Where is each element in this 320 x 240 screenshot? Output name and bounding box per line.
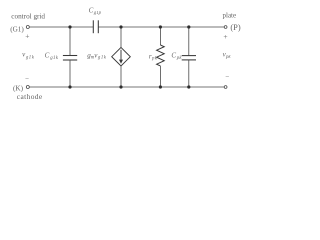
svg-text:g1k: g1k (50, 56, 58, 61)
resistor rpk (157, 27, 165, 87)
wire bottom rail (K to bottom-right terminal) (29, 86, 224, 88)
svg-text:pk: pk (176, 56, 183, 61)
svg-text:g1k: g1k (26, 56, 35, 61)
junction dot top at Cg1k (68, 25, 71, 28)
capacitor Cg1k (left shunt branch) (63, 27, 77, 87)
node P terminal (open circle) (224, 26, 227, 29)
wire top rail right segment (Cg1p to P) (98, 26, 224, 28)
capacitor Cpk (182, 27, 196, 87)
label: Cpk (171, 51, 182, 60)
junction dot bottom at rpk (159, 85, 162, 88)
svg-text:+: + (25, 32, 29, 41)
label: Cg1p (89, 7, 102, 17)
junction dot top at current source (119, 25, 122, 28)
node G1 terminal (open circle) (26, 26, 29, 29)
svg-text:cathode: cathode (17, 92, 43, 101)
svg-text:pk: pk (225, 55, 231, 60)
node bottom-right terminal (open circle) (224, 86, 227, 89)
svg-text:(G1): (G1) (10, 26, 24, 34)
svg-text:g1p: g1p (94, 11, 102, 16)
svg-text:−: − (225, 73, 229, 81)
junction dot bottom at Cpk (187, 85, 190, 88)
svg-text:g1k: g1k (98, 56, 107, 61)
svg-text:+: + (223, 32, 227, 41)
svg-text:control grid: control grid (11, 13, 45, 21)
junction dot top at Cpk (187, 25, 190, 28)
junction dot bottom at current source (119, 85, 122, 88)
controlled current source gm·vg1k (diamond with down arrow) (112, 27, 131, 87)
junction dot bottom at Cg1k (68, 85, 71, 88)
svg-text:(P): (P) (230, 23, 240, 32)
svg-text:plate: plate (223, 12, 237, 20)
svg-text:−: − (25, 75, 29, 83)
junction dot top at rpk (159, 25, 162, 28)
wire top rail left segment (G1 to Cg1p) (29, 26, 93, 28)
svg-text:C: C (171, 51, 176, 59)
capacitor Cg1p (plates in top rail) (93, 20, 98, 33)
label: rpk (149, 52, 158, 61)
label: Cg1k (45, 52, 59, 61)
node K terminal (open circle) (26, 86, 29, 89)
svg-text:C: C (45, 52, 50, 60)
label: gm vg1k (87, 51, 107, 60)
label: vg1k (22, 50, 35, 60)
svg-text:pk: pk (151, 57, 158, 62)
label: vpk (223, 51, 232, 61)
